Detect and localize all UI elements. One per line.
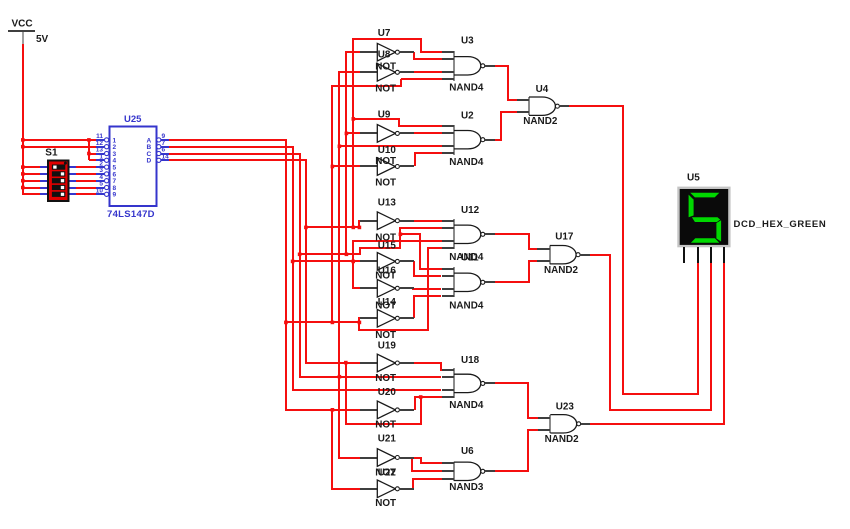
- wire U12 output to U17 input1: [491, 234, 538, 249]
- svg-text:U2: U2: [461, 110, 474, 121]
- junction rail353l U15 row: [351, 260, 355, 264]
- wire U3 output to U4 input1: [494, 66, 517, 100]
- NAND4 gate U12: [442, 219, 495, 249]
- wire rail x353 lower: [353, 241, 442, 288]
- svg-text:NOT: NOT: [375, 373, 396, 384]
- NOT gate U22: [360, 480, 414, 498]
- svg-text:U10: U10: [378, 145, 397, 156]
- wire U15 output to U11 input2: [414, 261, 441, 276]
- wire U19 output to U18 input1: [414, 363, 442, 370]
- wire row pin7: [23, 180, 96, 182]
- NAND2 gate U17: [537, 246, 590, 265]
- wire row pin5: [23, 166, 96, 168]
- wire VCC rail: [23, 44, 96, 194]
- junction U13 riser: [358, 226, 362, 230]
- wire U17 output to display pin3: [589, 255, 711, 410]
- svg-text:U6: U6: [461, 446, 474, 457]
- pin display 1: [683, 247, 685, 263]
- junction VCC rail row8: [21, 186, 25, 190]
- display U5 DCD_HEX_GREEN: [677, 187, 730, 248]
- junction A U20 row: [331, 408, 335, 412]
- wire tap U9 input: [346, 132, 360, 134]
- wire net D from U25: [169, 160, 360, 363]
- pin stub U25 output B: [161, 146, 169, 148]
- svg-text:U25: U25: [124, 114, 142, 125]
- junction U14 riser: [358, 321, 362, 325]
- svg-text:9: 9: [113, 192, 117, 199]
- NOT gate U9: [360, 125, 414, 143]
- wire row pin1: [23, 139, 96, 141]
- wire U10 output to U2 input4: [415, 153, 442, 166]
- pin stub U25 input 3: [96, 153, 104, 155]
- IC U25 74LS147D body: [110, 127, 157, 207]
- junction rail339 C row: [338, 375, 342, 379]
- svg-text:14: 14: [162, 154, 170, 161]
- power VCC: [8, 19, 49, 46]
- wire rail x346 upper: [346, 52, 360, 254]
- pin stub U25 output D: [161, 159, 169, 161]
- NOT gate U16: [360, 280, 414, 298]
- junction VCC rail row6: [21, 172, 25, 176]
- wire U23 output to display pin4: [590, 263, 724, 424]
- svg-text:U21: U21: [378, 434, 397, 445]
- junction rail353 end: [352, 226, 356, 230]
- NOT gate U8: [360, 64, 414, 82]
- svg-text:NAND2: NAND2: [523, 116, 558, 127]
- NOT gate U14: [360, 310, 414, 328]
- pin display 2: [697, 247, 699, 263]
- wire U18 output to U23 input1: [495, 383, 538, 418]
- pin stub U25 input 9: [96, 193, 104, 195]
- wire branch to pins 3 and 4: [88, 140, 90, 160]
- wire U14 output to U11 input4: [414, 296, 441, 318]
- pin stub U25 input 2: [96, 146, 104, 148]
- junction B U15 tap: [291, 260, 295, 264]
- wire tap U2 input3: [339, 145, 442, 147]
- svg-text:U20: U20: [378, 387, 397, 398]
- svg-text:U3: U3: [461, 36, 474, 47]
- junction VCC rail row2: [21, 145, 25, 149]
- wire row pin3: [89, 153, 96, 155]
- svg-text:U4: U4: [536, 84, 549, 95]
- junction rail332 U10: [331, 165, 335, 169]
- svg-text:NOT: NOT: [375, 177, 396, 188]
- svg-text:U9: U9: [378, 109, 391, 120]
- wire tap U14 input: [286, 318, 360, 322]
- pin stub U25 output C: [161, 153, 169, 155]
- wire rail x332 lower to U22: [332, 410, 360, 489]
- svg-text:74LS147D: 74LS147D: [107, 209, 155, 220]
- svg-text:NOT: NOT: [375, 419, 396, 430]
- wire rail x353 upper over U7 to U3 input1: [353, 39, 442, 227]
- svg-text:U18: U18: [461, 355, 480, 366]
- junction rail339 U2in3: [338, 145, 342, 149]
- wire rail x332 upper: [332, 79, 401, 322]
- pin display 4: [723, 247, 725, 263]
- svg-text:U19: U19: [378, 341, 397, 352]
- junction VCC rail row7: [21, 179, 25, 183]
- NOT gate U20: [360, 401, 414, 419]
- wire U2 output to U4 input2: [494, 112, 517, 140]
- wire rail x339: [339, 72, 360, 458]
- NAND2 gate U4: [517, 97, 569, 115]
- pin stub U25 input 5: [96, 166, 104, 168]
- junction row3 branch: [87, 152, 91, 156]
- wire U20 output to U18 input4: [415, 397, 442, 410]
- wire U14 line to U12 input4: [359, 248, 442, 330]
- svg-text:DCD_HEX_GREEN: DCD_HEX_GREEN: [734, 219, 827, 230]
- svg-text:U11: U11: [461, 252, 479, 263]
- wire row pin8: [23, 187, 96, 189]
- svg-text:VCC: VCC: [12, 19, 33, 30]
- wire branch to U11 input1: [400, 234, 442, 269]
- wire row pin2: [23, 146, 96, 148]
- segment d: [691, 238, 719, 243]
- wire row pin4: [89, 159, 96, 161]
- pin stub U25 output A: [161, 139, 169, 141]
- segment g: [692, 217, 720, 222]
- pin display 3: [710, 247, 712, 263]
- svg-text:NAND2: NAND2: [544, 265, 579, 276]
- svg-text:5V: 5V: [36, 34, 49, 45]
- junction rail346 U9: [345, 132, 349, 136]
- svg-text:U17: U17: [555, 231, 574, 242]
- junction U11in1 branch: [399, 233, 403, 237]
- wire tap U15 input: [293, 260, 360, 262]
- svg-text:U8: U8: [378, 49, 391, 60]
- wire U21 output to U6 input1: [414, 458, 442, 463]
- NAND4 gate U18: [442, 368, 495, 398]
- NOT gate U15: [360, 253, 414, 271]
- junction rail332 end: [331, 321, 335, 325]
- svg-text:U16: U16: [378, 265, 397, 276]
- junction D U19 row: [344, 361, 348, 365]
- wire U3 input4 stub feed: [401, 78, 442, 80]
- svg-text:U22: U22: [378, 468, 397, 479]
- pin stub U25 input 7: [96, 180, 104, 182]
- svg-text:NOT: NOT: [375, 330, 396, 341]
- wire net B from U25: [169, 147, 441, 390]
- svg-text:10: 10: [96, 188, 104, 195]
- junction rail353 U2in1: [352, 117, 356, 121]
- NOT gate U10: [360, 158, 414, 176]
- wire riser to U6 input2: [412, 458, 442, 471]
- svg-text:U7: U7: [378, 28, 391, 39]
- switch S1 body: [40, 161, 76, 202]
- wire U13 output to U12 input1: [414, 220, 442, 222]
- wire net C from U25: [169, 154, 441, 377]
- wire row pin6: [23, 173, 96, 175]
- svg-text:U13: U13: [378, 197, 397, 208]
- NOT gate U13: [360, 212, 414, 230]
- junction VCC rail row1: [21, 138, 25, 142]
- wire U7 output to U3 input2: [414, 52, 442, 59]
- pin stub U25 input 6: [96, 173, 104, 175]
- junction rail346 end: [345, 253, 349, 257]
- wire U9 output to U2 input2: [414, 132, 442, 134]
- NAND3 gate U6: [442, 462, 495, 481]
- wire tap U10 input: [332, 165, 360, 167]
- wire U11 output to U17 input2: [491, 261, 538, 282]
- junction U18in4: [419, 395, 423, 399]
- NAND4 gate U3: [442, 51, 495, 81]
- pin stub U25 input 8: [96, 187, 104, 189]
- wire tap U13 input: [306, 221, 360, 227]
- segment c: [716, 220, 721, 241]
- NAND2 gate U23: [538, 415, 590, 433]
- NAND4 gate U11: [442, 267, 495, 297]
- svg-text:D: D: [147, 158, 152, 165]
- NOT gate U19: [360, 354, 414, 372]
- wire U4 output to display pin2: [569, 106, 698, 394]
- svg-text:NAND4: NAND4: [449, 300, 484, 311]
- svg-text:U23: U23: [556, 401, 575, 412]
- junction row1 branch: [87, 138, 91, 142]
- junction D U13 tap: [304, 226, 308, 230]
- junction C tap: [298, 253, 302, 257]
- svg-text:U5: U5: [687, 172, 700, 183]
- svg-text:NAND3: NAND3: [449, 482, 484, 493]
- svg-text:NOT: NOT: [375, 83, 396, 94]
- wire over U9 to U2 input1: [353, 119, 442, 126]
- svg-text:NAND4: NAND4: [449, 400, 484, 411]
- segment f: [689, 195, 694, 218]
- svg-text:NAND2: NAND2: [545, 434, 580, 445]
- junction A U14 tap: [284, 321, 288, 325]
- svg-text:U14: U14: [378, 297, 397, 308]
- wire rail x346 lower: [346, 363, 421, 424]
- junction VCC rail row5: [21, 165, 25, 169]
- wire U6 output to U23 input2: [495, 430, 538, 471]
- NAND4 gate U2: [442, 125, 495, 155]
- pin stub U25 input 1: [96, 139, 104, 141]
- wire tap C to U12 input2: [300, 228, 442, 254]
- svg-text:NAND4: NAND4: [449, 157, 484, 168]
- pin stub U25 input 4: [96, 159, 104, 161]
- NOT gate U21: [360, 449, 414, 467]
- svg-text:NOT: NOT: [375, 498, 396, 509]
- svg-text:U15: U15: [378, 240, 397, 251]
- wire U8 output to U3 input3: [412, 71, 442, 73]
- NOT gate U7: [360, 43, 414, 61]
- segment a: [690, 193, 719, 198]
- svg-text:U12: U12: [461, 205, 480, 216]
- svg-text:S1: S1: [45, 147, 58, 158]
- svg-text:NAND4: NAND4: [449, 83, 484, 94]
- wire net A from U25: [169, 140, 361, 410]
- wire U22 output to U6 input3: [413, 479, 442, 489]
- wire U16 output to U11 input3: [412, 288, 441, 290]
